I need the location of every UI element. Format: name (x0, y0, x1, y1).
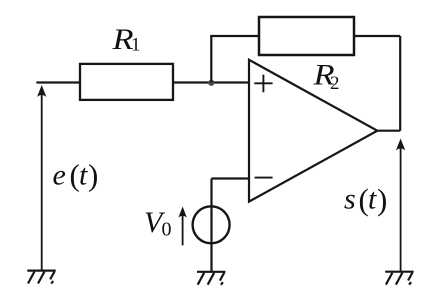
ground (middle, V0 reference) (197, 272, 225, 285)
wire: feedback branch to R2 left (210, 35, 259, 37)
source V0 (193, 206, 230, 243)
wire: inverting branch down through source to ground (210, 179, 212, 272)
ground (left, input reference) (27, 271, 55, 284)
wire: R2 right to output branch (354, 35, 400, 37)
ground (right, output reference) (385, 272, 413, 285)
wire: R1 to non-inverting input (173, 81, 249, 83)
resistor R2 (259, 17, 354, 55)
svg-text:e: e (53, 158, 66, 191)
svg-text:t: t (368, 183, 377, 216)
svg-text:): ) (88, 157, 98, 192)
op-amp U1 (249, 60, 377, 202)
wire: op-amp output (377, 130, 400, 132)
wire: input stub to R1 (36, 81, 80, 83)
op-amp inverting input marker (-) (255, 177, 273, 179)
arrow: V0 polarity arrow (178, 207, 186, 246)
op-amp non-inverting input marker (+) (254, 75, 272, 93)
svg-text:2: 2 (330, 73, 340, 94)
arrow: e(t) source arrow (37, 85, 46, 270)
svg-text:s: s (344, 183, 356, 216)
svg-text:0: 0 (162, 218, 172, 240)
svg-text:): ) (377, 182, 387, 217)
svg-text:1: 1 (131, 35, 141, 56)
resistor R1 (80, 64, 173, 100)
svg-text:t: t (79, 158, 88, 191)
wire: feedback down to output node (399, 36, 401, 131)
node: feedback junction (208, 80, 214, 86)
wire: V0 to inverting input (212, 177, 250, 179)
wire: junction up to feedback branch (210, 36, 212, 83)
arrow: s(t) output arrow (396, 139, 405, 272)
